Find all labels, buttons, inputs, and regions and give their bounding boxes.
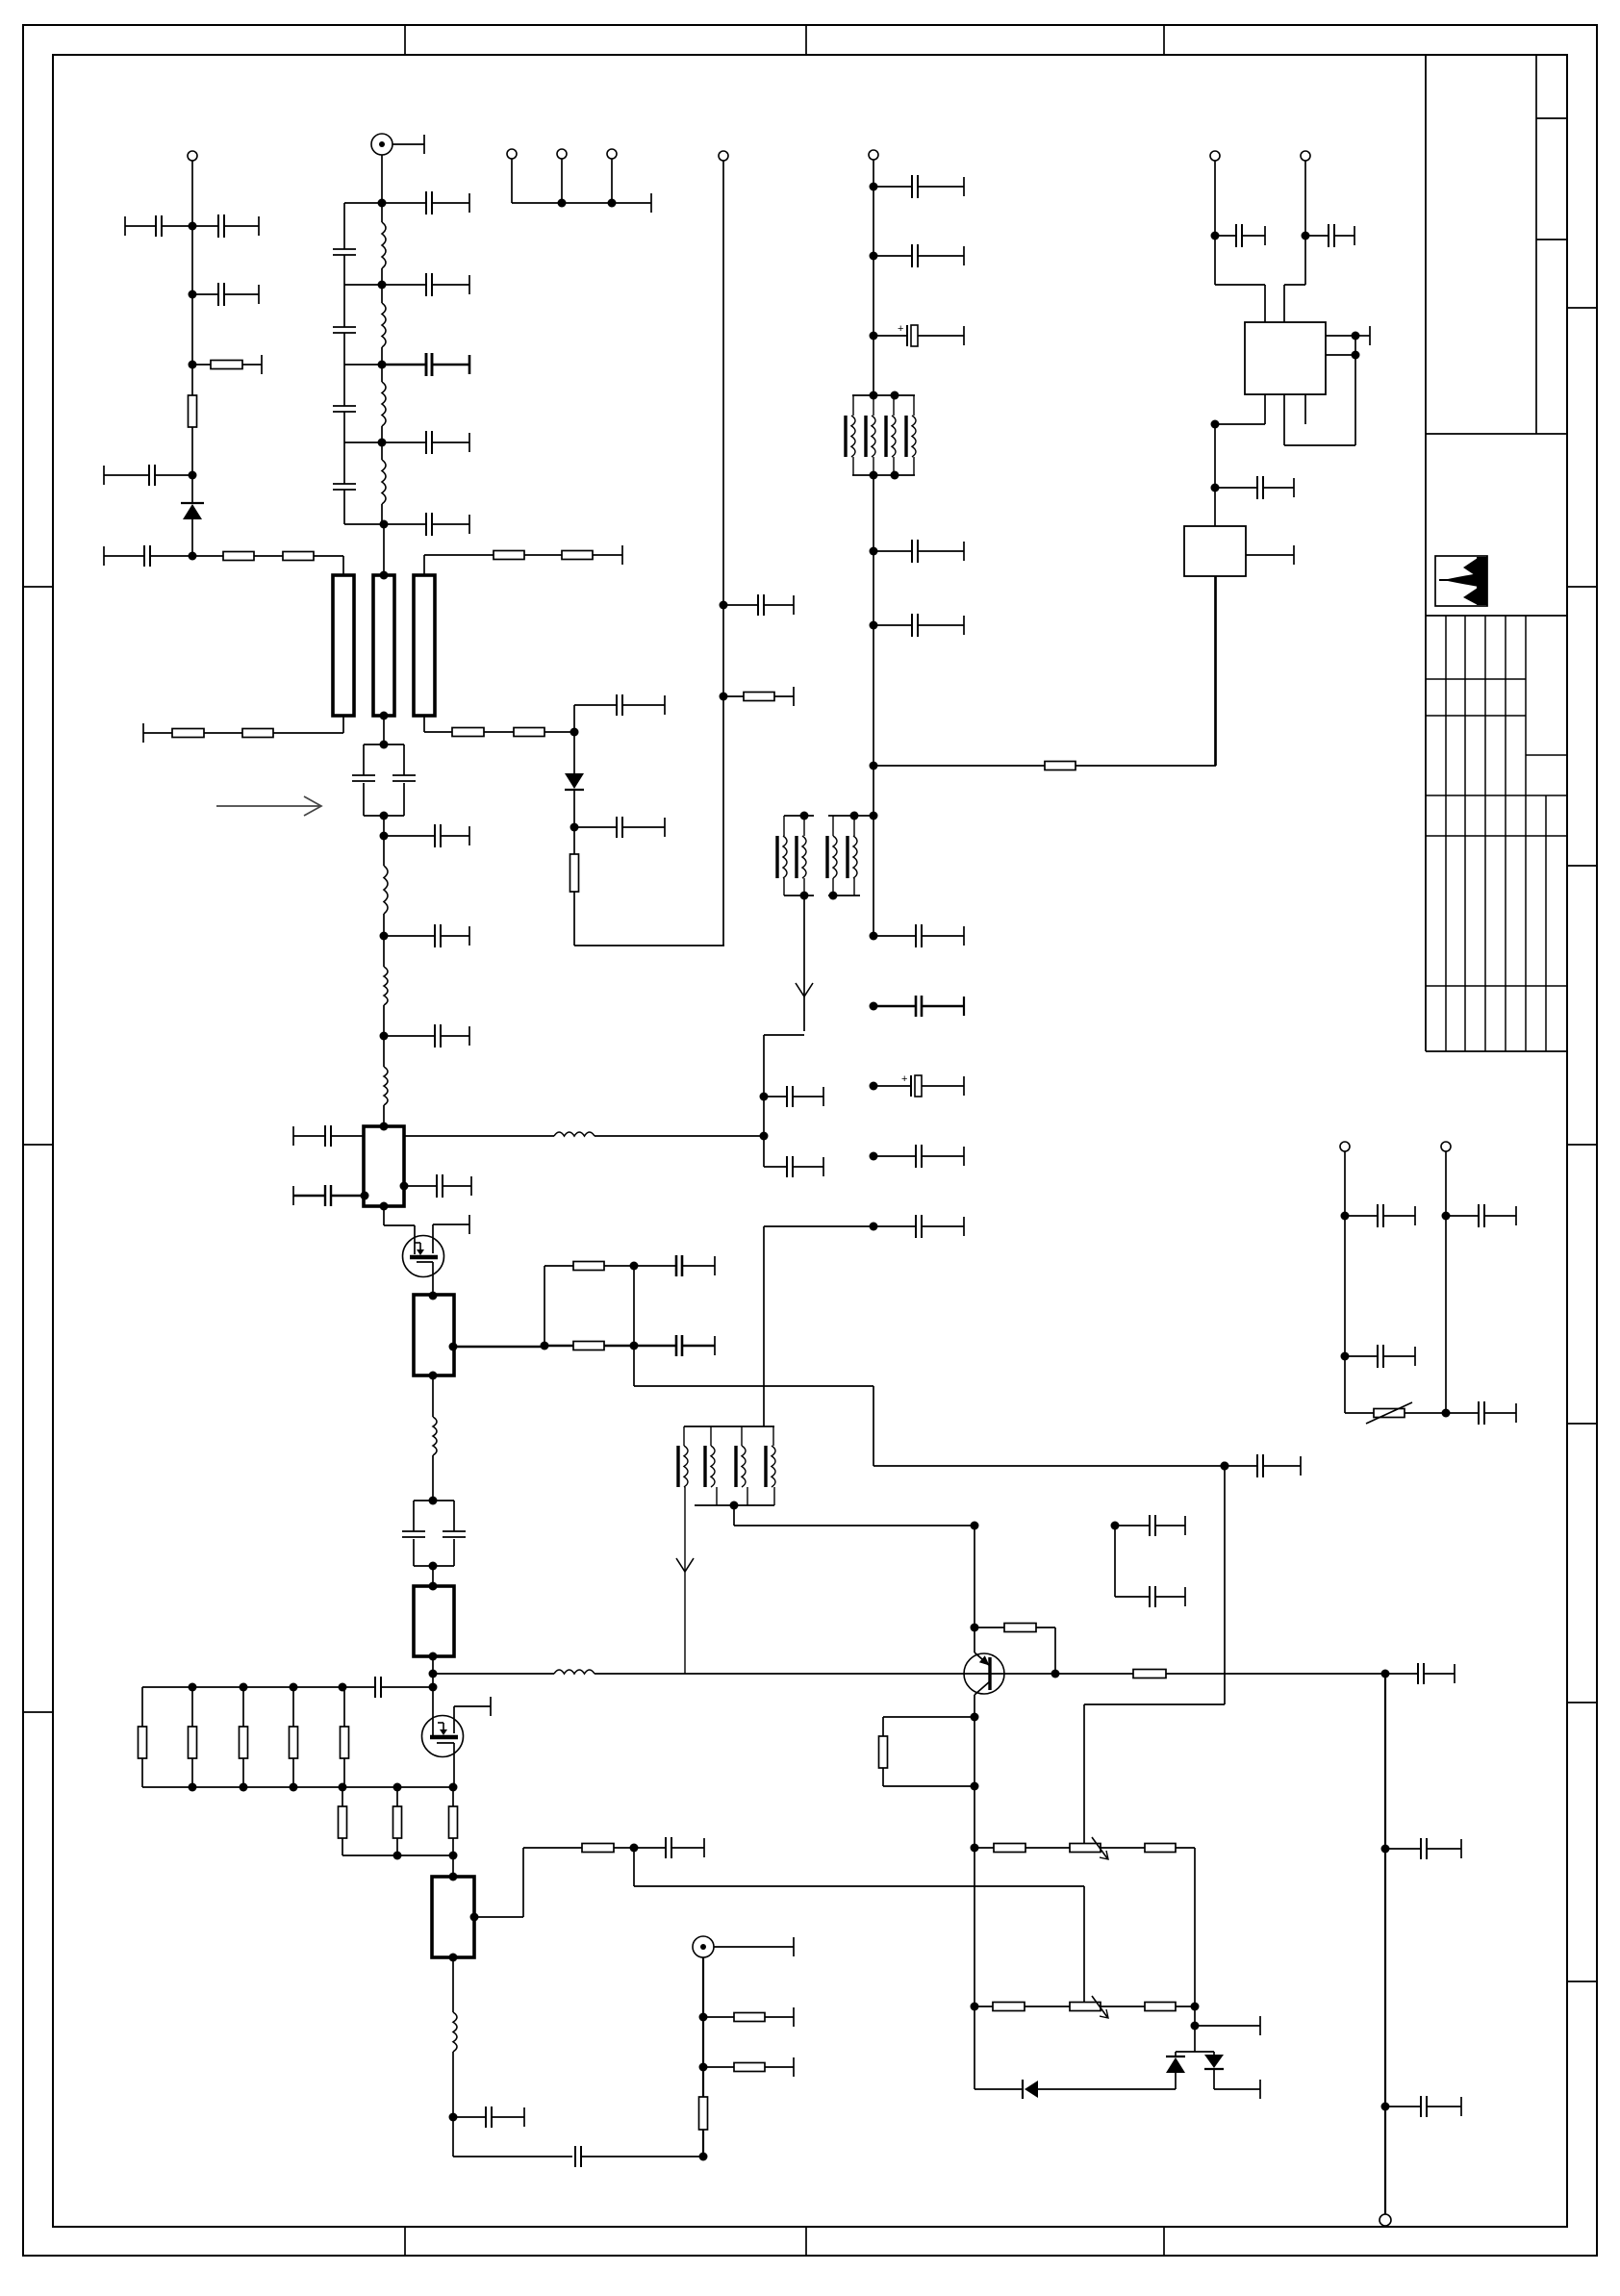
svg-text:+: + <box>901 1073 907 1085</box>
svg-text:+: + <box>898 323 903 335</box>
